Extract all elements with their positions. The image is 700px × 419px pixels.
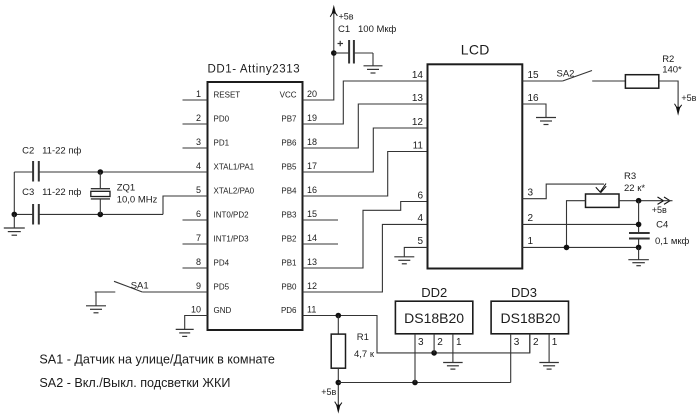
svg-text:+5в: +5в — [652, 205, 667, 215]
label SA1 — [131, 280, 149, 291]
IC DD2 body — [395, 301, 472, 334]
svg-text:R2: R2 — [662, 54, 674, 65]
svg-text:VCC: VCC — [280, 90, 297, 99]
wire R2 to +5v — [659, 81, 678, 107]
wire R3 left terminal down to LCD1 net — [567, 201, 586, 248]
svg-text:PD6: PD6 — [281, 306, 297, 315]
svg-text:8: 8 — [196, 257, 201, 267]
svg-text:13: 13 — [307, 257, 317, 267]
node DD2 pin2 junction — [431, 350, 437, 356]
svg-text:C1: C1 — [338, 24, 350, 35]
switch SA1 — [95, 281, 143, 292]
LCD left pin numbers — [412, 70, 424, 247]
svg-text:4,7 к: 4,7 к — [354, 349, 375, 360]
svg-text:DD2: DD2 — [421, 285, 447, 300]
wire +5v rail to DD3 pin3 — [338, 382, 510, 384]
svg-text:1: 1 — [552, 337, 558, 348]
capacitor C2 — [33, 161, 39, 182]
svg-text:10: 10 — [191, 304, 201, 314]
ground (left, C2/C3) — [4, 214, 25, 235]
ground (LCD pin 5) — [394, 257, 414, 264]
svg-text:+5в: +5в — [681, 93, 696, 103]
svg-text:C2: C2 — [22, 146, 34, 157]
DD2 pin 2 wire to data net — [433, 334, 435, 353]
svg-text:+5в: +5в — [321, 387, 336, 397]
DD2 pin numbers — [418, 337, 462, 348]
C1 polarity plus — [338, 41, 344, 46]
resistor R2 — [625, 75, 658, 89]
capacitor C4 — [629, 233, 650, 239]
svg-text:PD1: PD1 — [214, 138, 230, 147]
label LCD — [461, 42, 490, 58]
svg-text:18: 18 — [307, 137, 317, 147]
svg-text:PD4: PD4 — [214, 258, 230, 267]
svg-text:1: 1 — [456, 337, 462, 348]
svg-text:6: 6 — [417, 190, 423, 201]
wire R3 right terminal to +5v — [619, 200, 663, 202]
label C4 0,1 мкф — [655, 220, 690, 247]
resistor R1 — [331, 316, 345, 408]
svg-text:PD5: PD5 — [214, 282, 230, 291]
DD3 pin 1 wire to ground — [548, 334, 550, 363]
svg-text:19: 19 — [307, 113, 317, 123]
DD2 pin 3 wire to +5v rail — [414, 334, 416, 383]
svg-text:7: 7 — [196, 233, 201, 243]
wire vertical +5v/C4 rail — [638, 201, 640, 248]
svg-text:4: 4 — [196, 161, 201, 171]
svg-text:PB4: PB4 — [281, 186, 297, 195]
wire PD6(11) data net — [303, 316, 530, 353]
label DD1- Attiny2313 — [208, 64, 301, 76]
svg-text:11-22 пф: 11-22 пф — [42, 146, 81, 157]
svg-text:3: 3 — [528, 188, 534, 199]
svg-text:SA2: SA2 — [557, 69, 575, 80]
node LCD1/C4 junction — [636, 245, 642, 251]
LCD right pin numbers — [528, 70, 540, 247]
label DS18B20 (DD3) — [501, 310, 561, 326]
stub PB2(14) unconnected — [303, 243, 339, 245]
label R3 22 к* — [624, 171, 645, 194]
capacitor C1 — [334, 40, 373, 66]
node R1 top junction — [336, 313, 342, 319]
svg-text:LCD: LCD — [461, 42, 490, 58]
wire LCD 2 — [522, 223, 638, 225]
label +5в (bottom) — [321, 387, 336, 397]
node XTAL1/crystal junction — [98, 169, 104, 175]
R3 wiper arrow — [596, 184, 606, 193]
svg-text:GND: GND — [214, 306, 232, 315]
svg-text:10,0 MHz: 10,0 MHz — [117, 195, 158, 206]
svg-text:XTAL1/PA1: XTAL1/PA1 — [214, 162, 255, 171]
svg-text:11: 11 — [413, 140, 424, 151]
node DD2 pin3 junction — [412, 380, 418, 386]
label DD3 — [511, 285, 537, 300]
svg-text:6: 6 — [196, 209, 201, 219]
svg-text:PB5: PB5 — [281, 162, 297, 171]
+5v arrow (right, R3) — [658, 197, 673, 204]
DD1 unconnected left pin stubs 1,2,3,6,7,8 — [183, 100, 208, 268]
label R1 4,7 к — [354, 332, 375, 360]
node LCD2 junction — [636, 222, 642, 228]
potentiometer R3 body — [586, 194, 620, 207]
ground (DD3 pin 1) — [539, 363, 559, 370]
svg-text:SA1 - Датчик на улице/Датчик в: SA1 - Датчик на улице/Датчик в комнате — [39, 352, 275, 366]
wire SA2 to R2 — [592, 80, 625, 82]
wire LCD 16 to ground — [522, 104, 546, 118]
label ZQ1 10,0 MHz — [117, 182, 158, 205]
svg-text:INT1/PD3: INT1/PD3 — [214, 234, 250, 243]
svg-text:14: 14 — [307, 233, 317, 243]
svg-text:C4: C4 — [656, 220, 668, 231]
node C1 junction — [331, 50, 337, 56]
+5v arrow (bottom) — [335, 402, 342, 414]
label +5в (R2) — [681, 93, 696, 103]
svg-text:12: 12 — [307, 281, 317, 291]
IC DD1 ATtiny2313 body — [208, 82, 303, 330]
wire pin 20 VCC riser — [303, 14, 334, 100]
svg-text:XTAL2/PA0: XTAL2/PA0 — [214, 186, 255, 195]
label SA2 — [557, 69, 575, 80]
svg-text:PB6: PB6 — [281, 138, 297, 147]
wire LCD 3 to R3 wiper — [522, 184, 604, 199]
wire PB0(12) to LCD 4 — [303, 224, 428, 292]
DD3 pin 2 stub — [529, 334, 531, 353]
svg-text:PB0: PB0 — [281, 282, 297, 291]
DD1 pin names (left column) — [214, 90, 255, 315]
svg-text:DS18B20: DS18B20 — [501, 310, 561, 326]
svg-text:1: 1 — [196, 89, 201, 99]
wire XTAL2 net: C3 to pin 5 — [14, 196, 207, 214]
svg-text:100 Мкф: 100 Мкф — [358, 24, 397, 35]
svg-text:22 к*: 22 к* — [624, 183, 645, 194]
svg-text:2: 2 — [533, 337, 539, 348]
+5v arrow (R2) — [675, 104, 682, 116]
svg-text:RESET: RESET — [214, 90, 241, 99]
svg-text:16: 16 — [528, 93, 540, 104]
label C1 100 Мкф — [338, 24, 397, 35]
label DS18B20 (DD2) — [404, 310, 464, 326]
svg-text:11: 11 — [307, 304, 316, 314]
svg-text:INT0/PD2: INT0/PD2 — [214, 210, 250, 219]
svg-text:2: 2 — [196, 113, 201, 123]
crystal ZQ1 — [91, 172, 110, 214]
label DD2 — [421, 285, 447, 300]
svg-text:3: 3 — [418, 337, 424, 348]
svg-text:DD3: DD3 — [511, 285, 537, 300]
svg-text:9: 9 — [196, 281, 201, 291]
DD1 pin numbers 1-10 — [191, 89, 201, 314]
ground (LCD pin 16) — [536, 118, 556, 125]
node R3/+5v junction — [636, 198, 642, 204]
switch SA2 — [563, 71, 592, 82]
svg-text:2: 2 — [437, 337, 443, 348]
wire PB5(17) to LCD 12 — [303, 128, 428, 172]
wire PB4(16) to LCD 11 — [303, 152, 428, 197]
svg-text:15: 15 — [307, 209, 317, 219]
svg-text:0,1 мкф: 0,1 мкф — [655, 236, 690, 247]
svg-text:20: 20 — [307, 89, 317, 99]
stub PB3(15) unconnected — [303, 219, 339, 221]
wire LCD 15 to SA2 — [522, 80, 562, 82]
svg-text:4: 4 — [417, 213, 423, 224]
svg-text:SA2 - Вкл./Выкл. подсветки ЖКИ: SA2 - Вкл./Выкл. подсветки ЖКИ — [39, 376, 230, 390]
svg-text:12: 12 — [412, 117, 424, 128]
note SA2 description — [39, 376, 230, 390]
label C2 value — [22, 146, 81, 157]
svg-text:1: 1 — [528, 236, 534, 247]
svg-text:140*: 140* — [662, 65, 682, 76]
node R3-left/LCD1 junction — [564, 245, 570, 251]
DD3 pin 3 wire to +5v rail — [510, 334, 512, 383]
DD2 pin 1 wire to ground — [452, 334, 454, 363]
svg-text:11-22 пф: 11-22 пф — [42, 187, 81, 198]
svg-text:R3: R3 — [624, 171, 636, 182]
ground (C1) — [364, 66, 383, 73]
wire PB7(19) to LCD 14 — [303, 81, 428, 124]
capacitor C3 — [33, 204, 39, 225]
wire PB1(13) to LCD 6 — [303, 202, 428, 269]
wire XTAL1 net: C2 to pin 4 — [14, 171, 207, 173]
svg-text:3: 3 — [514, 337, 520, 348]
wire PB6(18) to LCD 13 — [303, 104, 428, 148]
DD3 pin numbers — [514, 337, 558, 348]
svg-text:5: 5 — [196, 185, 201, 195]
svg-text:C3: C3 — [22, 187, 34, 198]
svg-text:17: 17 — [307, 161, 317, 171]
LCD pin 5 stub to ground — [404, 247, 427, 256]
ground (DD1 pin 10) — [176, 329, 194, 336]
label +5в (R3) — [652, 205, 667, 215]
svg-text:16: 16 — [307, 185, 317, 195]
svg-text:14: 14 — [412, 70, 424, 81]
svg-text:2: 2 — [528, 213, 534, 224]
DD1 pin numbers 20-11 — [307, 89, 317, 314]
svg-text:15: 15 — [528, 70, 540, 81]
svg-text:13: 13 — [412, 93, 424, 104]
svg-text:DD1- Attiny2313: DD1- Attiny2313 — [208, 64, 301, 76]
svg-text:PB1: PB1 — [281, 258, 297, 267]
node +5v rail / R1 junction — [336, 380, 342, 386]
wire left vertical C2-C3 — [13, 172, 15, 214]
ground (C4) — [628, 247, 649, 265]
svg-text:DS18B20: DS18B20 — [404, 310, 464, 326]
svg-text:PB2: PB2 — [281, 234, 297, 243]
svg-text:ZQ1: ZQ1 — [117, 182, 135, 193]
wire pin 9 to SA1 — [142, 291, 207, 293]
ground (SA1) — [86, 292, 106, 313]
svg-text:R1: R1 — [357, 332, 369, 343]
DD1 pin names (right column) — [280, 90, 297, 315]
node left ground junction — [12, 212, 18, 218]
svg-text:PB3: PB3 — [281, 210, 297, 219]
note SA1 description — [39, 352, 275, 366]
svg-text:SA1: SA1 — [131, 280, 149, 291]
ground (DD2 pin 1) — [443, 363, 463, 370]
label +5в (top) — [339, 11, 354, 21]
svg-text:5: 5 — [417, 236, 423, 247]
LCD block body — [428, 64, 523, 268]
+5v arrow (top) — [330, 5, 337, 17]
label C3 value — [22, 187, 81, 198]
svg-text:+5в: +5в — [339, 11, 354, 21]
node XTAL2/crystal junction — [98, 212, 104, 218]
IC DD3 body — [491, 301, 568, 334]
label R2 140* — [662, 54, 682, 76]
svg-text:PB7: PB7 — [281, 114, 297, 123]
wire pin 10 GND — [185, 316, 208, 330]
wire LCD 1 — [522, 246, 638, 248]
svg-text:PD0: PD0 — [214, 114, 230, 123]
svg-text:3: 3 — [196, 137, 201, 147]
